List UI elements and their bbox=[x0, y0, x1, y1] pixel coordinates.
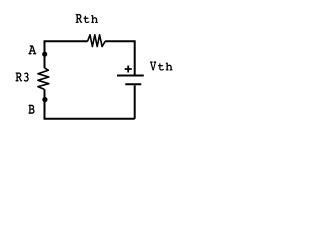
wire top-left segment bbox=[45, 41, 88, 42]
voltage source Vth plus sign bbox=[125, 66, 132, 73]
wire left lower segment bbox=[44, 89, 46, 119]
resistor R3 bbox=[38, 68, 49, 89]
wire bottom segment bbox=[45, 118, 135, 119]
wire top-right segment bbox=[105, 41, 135, 74]
node B bbox=[42, 97, 47, 102]
wire left upper segment bbox=[44, 41, 46, 68]
label A bbox=[29, 46, 37, 55]
node A bbox=[42, 52, 47, 57]
label Rth bbox=[76, 14, 98, 23]
voltage source Vth bottom plate bbox=[125, 83, 141, 85]
label R3 bbox=[16, 73, 29, 82]
wire battery to bottom bbox=[134, 85, 136, 119]
label B bbox=[29, 105, 35, 114]
label Vth bbox=[150, 62, 172, 71]
resistor Rth bbox=[88, 35, 106, 47]
voltage source Vth top plate bbox=[117, 75, 144, 77]
